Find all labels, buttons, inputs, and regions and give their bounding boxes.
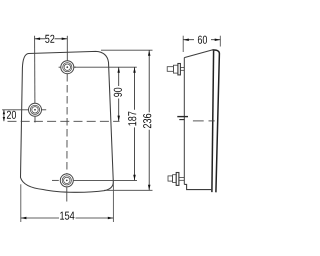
screw S2 left (torx head) bbox=[29, 103, 42, 116]
dimension 20 (left, screw to reference plane) bbox=[3, 110, 16, 121]
dimension 52 (top, between screw centerlines) bbox=[35, 35, 68, 43]
side view lens face (inner) bbox=[212, 51, 214, 193]
dimension 236 (overall height) bbox=[143, 50, 151, 190]
extension line bottom of housing (for dim 236) bbox=[104, 189, 153, 191]
side view lens face (outer) bbox=[212, 50, 219, 192]
screw S3 bottom (torx head) bbox=[52, 174, 73, 187]
dimension 90 (top screw to reference plane) bbox=[114, 67, 122, 121]
dimension 187 (screw to screw) bbox=[128, 67, 136, 180]
extension line top screw row (for dims 90/187) bbox=[74, 66, 137, 68]
cable connector (side view middle-left) bbox=[177, 117, 188, 120]
lamp housing front view outline bbox=[21, 51, 114, 192]
extension line bottom screw row (for dim 187) bbox=[74, 179, 137, 181]
dimension 154 (bottom width) bbox=[21, 181, 114, 222]
dimension 60 (side view depth) bbox=[183, 36, 220, 52]
horizontal dashed reference line (lamp mounting plane) bbox=[8, 120, 120, 122]
side view housing body bbox=[184, 50, 212, 190]
screw S1 top (torx head) bbox=[59, 61, 76, 74]
vertical centerline through screws S1,S3 bbox=[66, 36, 69, 202]
mounting bolt B2 bottom (stud + nut + washer) bbox=[168, 173, 184, 186]
extension line top of housing (for dim 236) bbox=[101, 49, 153, 51]
mounting bolt B1 top (stud + nut + washer) bbox=[167, 64, 184, 75]
centerline through screw S2 bbox=[2, 36, 46, 123]
reference plane dash line through side view bbox=[193, 120, 215, 122]
